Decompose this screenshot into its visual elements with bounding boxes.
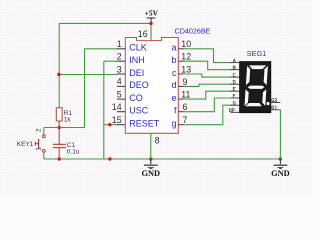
pin b stub: [178, 60, 183, 62]
svg-text:15: 15: [112, 115, 122, 125]
wire DEI branch to pin 3: [59, 74, 117, 76]
svg-text:CLK: CLK: [129, 43, 147, 53]
pin a stub: [178, 48, 183, 50]
svg-text:11: 11: [181, 90, 190, 100]
segment G middle: [247, 86, 264, 89]
node junction at DEI branch: [57, 73, 60, 76]
node junction on RESET wire: [108, 123, 111, 126]
wire segment f to display F: [184, 98, 233, 112]
resistor R1: [56, 108, 62, 145]
svg-text:5: 5: [117, 89, 122, 99]
label R1 value: [64, 110, 73, 123]
display pin C line: [231, 76, 240, 78]
pin e stub: [178, 98, 183, 100]
node junction at +5V: [149, 22, 152, 25]
svg-text:e: e: [171, 93, 176, 103]
display pin label D: [233, 81, 235, 84]
switch KEY1: [35, 128, 45, 160]
display pin G2 line: [271, 102, 281, 104]
display pin label E: [233, 88, 235, 91]
svg-text:2: 2: [117, 52, 122, 62]
svg-text:a: a: [171, 43, 176, 53]
pin 14 stub: [117, 111, 125, 113]
segment B top-right: [263, 66, 267, 85]
7-segment display body: [240, 62, 271, 113]
svg-text:+5V: +5V: [145, 8, 159, 17]
wire CLK from node up to pin 1: [85, 49, 118, 128]
svg-text:GND: GND: [141, 169, 160, 178]
display pin label F: [233, 94, 235, 97]
display pin E line: [231, 90, 240, 92]
pin d stub: [178, 85, 183, 87]
svg-text:GND: GND: [271, 169, 290, 178]
pin c stub: [178, 73, 183, 75]
svg-text:d: d: [171, 80, 176, 90]
node junction rail right end: [279, 157, 282, 160]
pin 4 stub: [117, 85, 125, 87]
wire +5V left vertical down to R1: [58, 23, 60, 107]
svg-text:3: 3: [117, 64, 122, 74]
wire segment c to display C: [184, 74, 233, 77]
svg-text:9: 9: [183, 77, 188, 87]
pin 5 stub: [117, 98, 125, 100]
svg-text:CO: CO: [129, 93, 143, 103]
wire pin16 vertical: [150, 22, 152, 41]
wire RC node horizontal: [44, 127, 85, 129]
pin 1 stub: [117, 48, 125, 50]
wire segment d to display D: [184, 84, 233, 86]
node junction INH wire to rail: [108, 157, 111, 160]
svg-text:6: 6: [183, 102, 188, 112]
display pin A line: [231, 62, 240, 64]
svg-text:b: b: [171, 55, 176, 65]
svg-text:0.1u: 0.1u: [67, 149, 80, 156]
display pin F line: [231, 97, 240, 99]
svg-text:DEI: DEI: [129, 68, 144, 78]
wire segment a to display A: [184, 49, 233, 63]
segment A top: [249, 65, 267, 69]
ground symbol left: [141, 159, 160, 178]
svg-text:10: 10: [181, 39, 191, 49]
op-amp? no: IC U1 CD4026BE body: [125, 38, 178, 134]
svg-text:DEO: DEO: [129, 80, 149, 90]
label C1 value: [67, 142, 80, 155]
svg-text:14: 14: [112, 102, 122, 112]
segment D bottom: [245, 103, 262, 106]
svg-text:RESET: RESET: [129, 119, 160, 129]
display pin label G: [233, 102, 235, 105]
display pin B line: [231, 69, 240, 71]
segment C bottom-right: [262, 89, 266, 106]
display pin D line: [231, 83, 240, 85]
svg-text:8: 8: [155, 135, 160, 145]
svg-text:KEY1: KEY1: [17, 141, 34, 148]
display pin G1 line: [271, 109, 279, 111]
node junction pin8 to rail: [149, 157, 152, 160]
display pin label C: [233, 73, 235, 76]
pin g stub: [178, 124, 183, 126]
svg-text:CD4026BE: CD4026BE: [175, 27, 211, 36]
wire G1 to ground rail: [279, 110, 281, 159]
node junction C1 to rail: [58, 157, 61, 160]
ground symbol right: [271, 159, 290, 178]
display pin DP line: [231, 111, 240, 113]
wire INH vertical to ground rail: [103, 61, 105, 159]
svg-text:SEG1: SEG1: [247, 49, 267, 58]
display pin label B: [233, 66, 235, 69]
svg-text:g: g: [171, 119, 176, 129]
svg-text:c: c: [172, 68, 177, 78]
wire RESET horizontal to pin 15: [104, 124, 118, 126]
segment F top-left: [246, 66, 251, 85]
wire segment g to display G: [184, 105, 233, 125]
wire +5V top horizontal: [59, 22, 151, 24]
svg-text:7: 7: [183, 115, 188, 125]
display pin label A: [233, 59, 235, 62]
power +5V symbol: [145, 8, 159, 22]
wire segment e to display E: [184, 91, 233, 99]
pin 15 stub: [117, 124, 125, 126]
svg-text:1: 1: [35, 147, 42, 151]
segment DP dot: [266, 102, 269, 105]
display pin label G1: [272, 106, 276, 109]
svg-text:12: 12: [181, 52, 191, 62]
display pin G line: [231, 104, 240, 106]
svg-text:1: 1: [117, 39, 122, 49]
svg-text:4: 4: [117, 77, 122, 87]
wire INH horizontal to pin 2: [104, 60, 118, 62]
wire segment b to display B: [184, 61, 233, 69]
svg-text:INH: INH: [129, 55, 145, 65]
wire pin8 to ground: [150, 133, 152, 159]
segment E bottom-left: [244, 89, 248, 106]
display pin label G2: [272, 99, 277, 102]
pin 2 stub: [117, 60, 125, 62]
svg-text:1k: 1k: [64, 117, 72, 124]
svg-text:USC: USC: [129, 106, 149, 116]
svg-text:13: 13: [181, 64, 191, 74]
ground rail wire: [44, 158, 281, 160]
svg-text:2: 2: [35, 128, 42, 132]
capacitor C1: [53, 144, 66, 159]
pin 3 stub: [117, 73, 125, 75]
pin f stub: [178, 111, 183, 113]
display pin label DP: [229, 109, 234, 112]
svg-text:16: 16: [138, 29, 148, 39]
node junction below R1: [58, 126, 61, 129]
